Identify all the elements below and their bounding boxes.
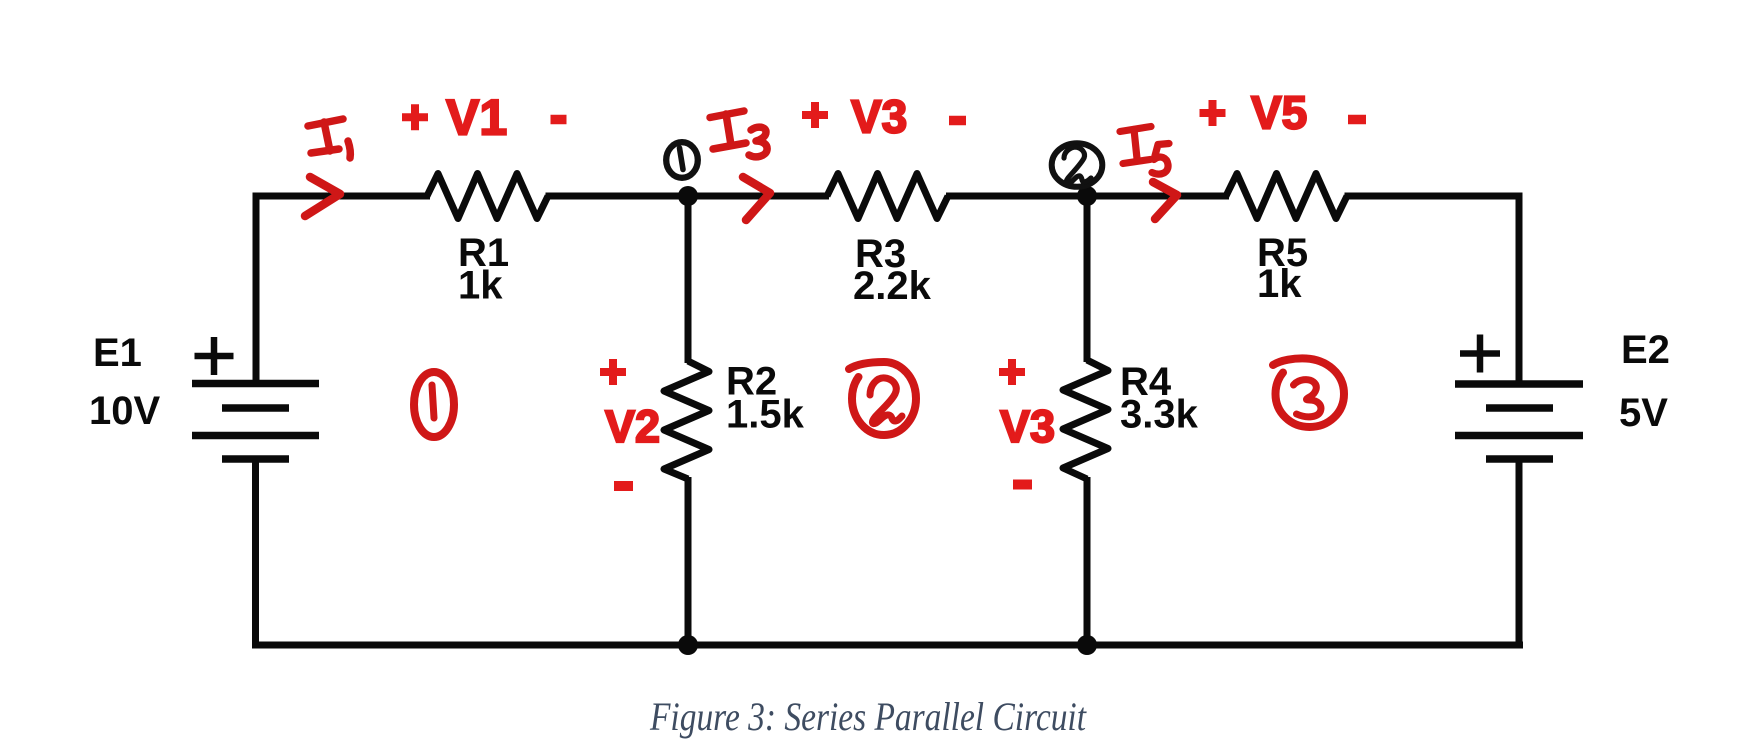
loop 2 circled marker red xyxy=(849,362,916,435)
battery E2 plate long bottom xyxy=(1455,432,1583,440)
plus sign of V5 label xyxy=(1200,100,1226,126)
battery E2 plus terminal sign xyxy=(1460,335,1500,373)
resistor R4 xyxy=(1063,360,1108,479)
current arrow I1 xyxy=(305,177,340,216)
minus sign of V1 label xyxy=(551,115,567,125)
svg-text:E1: E1 xyxy=(93,331,142,375)
svg-text:V1: V1 xyxy=(446,90,507,146)
node 2 circled marker xyxy=(1052,143,1103,187)
svg-text:10V: 10V xyxy=(89,389,160,433)
battery E1 plate short 1 xyxy=(222,404,289,412)
resistor R5 xyxy=(1226,174,1347,219)
loop 3 circled marker red xyxy=(1273,358,1344,427)
node 1 circled marker xyxy=(666,142,698,178)
node junction dot node1 top xyxy=(678,186,698,206)
wire top-right segment xyxy=(1345,193,1523,200)
battery E1 plus terminal sign xyxy=(195,337,234,375)
current label I3 handwritten xyxy=(710,111,767,157)
minus sign of V3 top label xyxy=(949,116,966,126)
wire top middle-right segment xyxy=(946,193,1229,200)
wire left vertical upper xyxy=(253,193,260,384)
wire top-left segment xyxy=(253,193,431,200)
plus sign of V3 side label xyxy=(999,359,1025,385)
wire left vertical lower xyxy=(252,459,259,649)
node junction dot node1 bottom xyxy=(678,635,698,655)
wire top middle-left segment xyxy=(546,193,830,200)
svg-text:V3: V3 xyxy=(851,91,907,143)
svg-text:V2: V2 xyxy=(605,401,660,452)
wire node2 vertical upper xyxy=(1084,196,1091,362)
battery E2 plate short 1 xyxy=(1486,404,1553,412)
current label I1 handwritten xyxy=(308,119,350,158)
plus sign of V3 top label xyxy=(802,102,828,128)
svg-text:V5: V5 xyxy=(1251,87,1307,139)
resistor R3 xyxy=(827,174,948,219)
svg-text:2.2k: 2.2k xyxy=(853,264,932,308)
wire node1 vertical lower xyxy=(685,477,692,645)
svg-text:V3: V3 xyxy=(1000,401,1055,452)
svg-text:1k: 1k xyxy=(1257,262,1302,306)
current arrow I5 xyxy=(1153,182,1177,219)
wire right vertical upper xyxy=(1516,193,1523,385)
current label I5 handwritten xyxy=(1120,127,1169,175)
current arrow I3 xyxy=(743,177,770,220)
node junction dot node2 top xyxy=(1077,186,1097,206)
minus sign of V3 side label xyxy=(1013,480,1032,490)
svg-text:3.3k: 3.3k xyxy=(1120,393,1199,437)
node junction dot node2 bottom xyxy=(1077,635,1097,655)
svg-text:E2: E2 xyxy=(1621,328,1670,372)
minus sign of V5 label xyxy=(1348,115,1366,125)
svg-text:1k: 1k xyxy=(458,264,503,308)
svg-text:1.5k: 1.5k xyxy=(726,393,805,437)
plus sign of V2 side label xyxy=(600,359,626,385)
resistor R2 xyxy=(664,361,709,479)
battery E2 plate long top xyxy=(1455,380,1583,388)
battery E1 plate long top xyxy=(192,380,319,388)
wire node2 vertical lower xyxy=(1084,477,1091,645)
resistor R1 xyxy=(427,174,548,219)
wire right vertical lower xyxy=(1516,459,1523,649)
loop 1 circled marker red xyxy=(414,372,454,437)
battery E1 plate short 2 xyxy=(222,455,289,463)
svg-text:5V: 5V xyxy=(1619,391,1668,435)
wire bottom xyxy=(252,642,1523,649)
svg-text:Figure 3: Series Parallel Circ: Figure 3: Series Parallel Circuit xyxy=(649,694,1087,739)
wire node1 vertical upper xyxy=(685,196,692,363)
battery E1 plate long bottom xyxy=(192,432,319,440)
plus sign of V1 label xyxy=(402,104,428,130)
minus sign of V2 side label xyxy=(614,481,633,491)
battery E2 plate short 2 xyxy=(1486,455,1553,463)
